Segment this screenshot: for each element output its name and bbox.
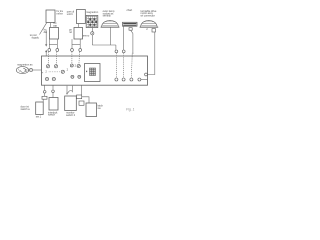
dashed stubs into PCB top edge	[48, 52, 132, 78]
switch stubs above monitor box	[66, 86, 72, 94]
wire from fan motor connector down right side	[148, 32, 155, 74]
svg-text:w/ connector: w/ connector	[141, 13, 155, 17]
wire from fuse square	[131, 30, 133, 53]
svg-text:2: 2	[75, 64, 77, 68]
monitor switch box	[65, 96, 77, 111]
door switch label	[21, 104, 31, 110]
magnetron hatched box	[86, 16, 98, 28]
svg-text:supply: supply	[32, 35, 40, 39]
under-PCB ring 2	[52, 90, 55, 93]
transformer box 2	[77, 10, 86, 24]
diagonal lead from transformer T1	[40, 23, 47, 35]
wire from PCB to relay box B	[80, 85, 82, 95]
connector rect 2	[79, 101, 84, 105]
transformer box 1	[46, 10, 55, 23]
interlock label	[48, 110, 58, 116]
svg-text:dio: dio	[44, 30, 48, 34]
oven lamp dome	[101, 20, 120, 27]
svg-text:magnetron: magnetron	[86, 10, 99, 14]
oven lamp label	[103, 9, 115, 17]
thermostat contact circle	[91, 32, 94, 35]
monitor switch label (below)	[66, 111, 76, 117]
connector at bend	[42, 96, 47, 99]
svg-text:chart: chart	[127, 8, 133, 12]
svg-text:2: 2	[45, 70, 47, 74]
mid terminal ring	[61, 70, 64, 73]
svg-text:magnetron as: magnetron as	[17, 62, 33, 66]
interlock box	[49, 98, 58, 111]
fuse square below terminal strip	[129, 28, 132, 31]
connector rect 1	[77, 95, 82, 99]
ring under terminal strip wire	[122, 50, 125, 53]
checker box lead	[91, 28, 93, 32]
capacitor left label	[44, 28, 48, 34]
dotted trail to mid ring	[49, 71, 60, 73]
wire to door switch box	[44, 93, 46, 96]
door switch box	[36, 102, 44, 115]
svg-text:sembly: sembly	[103, 14, 112, 18]
label for transformer box 1	[57, 9, 64, 15]
controller sub-box on PCB	[85, 64, 101, 82]
edge connector tick	[42, 72, 44, 74]
connector rings pair 1	[48, 49, 59, 52]
wire pair from capacitor box	[49, 39, 57, 48]
capacitor label (below T1)	[53, 21, 58, 27]
PCB right terminal ring row	[115, 78, 148, 81]
svg-text:sw 1: sw 1	[36, 115, 42, 119]
stub T1 to C1	[49, 23, 51, 28]
svg-text:rel: rel	[69, 30, 72, 34]
wire from terminal strip	[123, 26, 125, 50]
relay box	[74, 28, 83, 40]
svg-text:switch a: switch a	[21, 107, 31, 111]
wire from thermostat to PCB terminal	[92, 35, 116, 50]
wire to interlock box	[52, 93, 54, 99]
arrow stub into PCB top left	[45, 50, 47, 56]
svg-text:Fig. 1: Fig. 1	[126, 108, 135, 112]
label for transformer box 2	[67, 9, 75, 15]
stub T2 to relay	[78, 24, 80, 28]
svg-text:sw: sw	[98, 107, 101, 110]
junction label (power input)	[30, 33, 40, 39]
fan motor dome	[140, 20, 159, 27]
terminal strip box	[123, 22, 138, 26]
fan motor label	[141, 9, 157, 17]
ring under wire W1	[115, 50, 118, 53]
svg-text:switch: switch	[48, 113, 56, 117]
PCB main box	[42, 56, 148, 85]
pin number labels	[45, 64, 76, 74]
svg-text:switch 2: switch 2	[66, 113, 76, 117]
PCB terminal ring row 2	[45, 75, 80, 80]
vertical feed wire with arrowhead	[45, 30, 47, 46]
wire from oven lamp down	[110, 27, 112, 45]
right edge ring	[145, 73, 148, 76]
connector rings pair 2	[71, 49, 82, 52]
under-PCB ring 1	[43, 91, 46, 94]
fan motor connector	[152, 29, 156, 32]
svg-text:unit b: unit b	[67, 12, 74, 16]
tick at fuse wire end	[132, 52, 134, 54]
svg-text:2: 2	[67, 67, 69, 71]
svg-text:nsfmr: nsfmr	[57, 12, 64, 16]
wire pair from relay box	[72, 39, 80, 48]
PCB terminal ring row 1	[46, 64, 80, 68]
relay box B	[86, 103, 97, 117]
relay box B label	[98, 103, 104, 109]
magnetron tube oval	[16, 67, 29, 74]
capacitor box C1	[50, 28, 59, 40]
magnetron lead ring	[29, 68, 32, 71]
wires exiting PCB bottom left	[45, 85, 53, 90]
wire magnetron to PCB	[33, 69, 42, 71]
